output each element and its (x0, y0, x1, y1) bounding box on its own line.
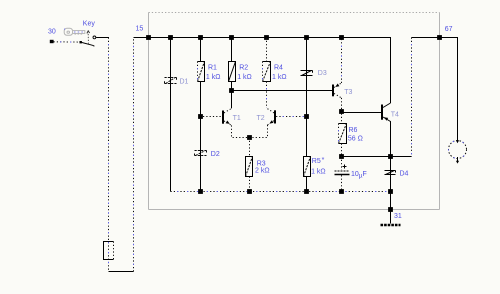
junction rail D2 (198, 189, 203, 194)
junction bus D1 (168, 35, 173, 40)
svg-text:1 kΩ: 1 kΩ (272, 74, 287, 81)
junction 67 / gray (437, 35, 442, 40)
zener D4 (385, 170, 409, 177)
junction R2/T1/T3 (229, 88, 234, 93)
module outline (gray box) (149, 13, 440, 210)
svg-text:R2: R2 (239, 65, 248, 72)
junction T3 collector / T4 base (339, 109, 344, 114)
resistor R6 (339, 124, 363, 144)
svg-text:31: 31 (394, 213, 402, 220)
svg-text:T2: T2 (257, 115, 265, 122)
svg-text:30: 30 (48, 29, 56, 36)
svg-text:D4: D4 (400, 170, 409, 177)
transistor T2 (257, 108, 305, 125)
svg-text:2 kΩ: 2 kΩ (255, 168, 270, 175)
wire: R6 branch (dashed) (341, 114, 343, 157)
wire: R4 bottom to T2 collector (dashed) (266, 82, 268, 109)
svg-text:15: 15 (136, 26, 144, 33)
svg-text:1 kΩ: 1 kΩ (206, 74, 221, 81)
ground (381, 224, 401, 227)
resistor R3 (246, 157, 270, 177)
svg-text:D3: D3 (318, 70, 327, 77)
junction bus T3 (339, 35, 344, 40)
junction rail C1 (339, 189, 344, 194)
junction node line / D4 (388, 154, 393, 159)
wire: T1 emitter down (dashed) (232, 125, 250, 137)
transistor T3 (333, 38, 352, 113)
svg-text:Key: Key (83, 21, 96, 28)
wire: R1 branch top (200, 38, 202, 62)
zener D1 (165, 78, 189, 86)
wire: junction to T3 base (solid) (232, 90, 333, 92)
resistor R2 (229, 62, 252, 82)
capacitor C1 10uF (335, 157, 367, 192)
zener D3 (301, 70, 327, 77)
svg-text:R4: R4 (274, 65, 283, 72)
key icon (64, 21, 95, 36)
svg-text:56 Ω: 56 Ω (348, 136, 363, 143)
wire: T4 emitter to ground run (390, 157, 392, 224)
wire: main top bus (134, 38, 391, 104)
wire: right riser to bus (dashed) (133, 38, 135, 272)
resistor R5 (304, 157, 326, 177)
switch fixed contact (93, 36, 96, 39)
svg-text:T3: T3 (344, 89, 352, 96)
svg-text:1 kΩ: 1 kΩ (237, 74, 252, 81)
wire: T3 to T4 base (344, 112, 382, 114)
junction T2 base tap (304, 114, 309, 119)
wire: bottom link (solid) (109, 271, 134, 273)
resistor R1 (198, 62, 221, 82)
switch S1 (key operated) (80, 31, 96, 46)
ground rail (dashed) (171, 191, 391, 193)
junction rail D4 (388, 189, 393, 194)
junction emitters / R3 (247, 135, 252, 140)
wire: node line (342, 156, 412, 158)
svg-text:D2: D2 (211, 151, 220, 158)
wire: to R3 (dashed) (249, 138, 251, 192)
junction bus R4 (264, 35, 269, 40)
resistor R4 (263, 62, 287, 82)
junction gray box bottom (388, 207, 393, 212)
svg-text:R6: R6 (349, 127, 358, 134)
svg-text:T1: T1 (233, 115, 241, 122)
junction bus R2 (229, 35, 234, 40)
zener D2 (195, 151, 220, 158)
svg-text:R1: R1 (208, 65, 217, 72)
terminal 30 (48, 29, 56, 44)
wire: R1 to D2 to rail (200, 82, 202, 192)
wire: terminal 30 to switch pivot (dashed) (54, 41, 81, 43)
junction bus R1 (198, 35, 203, 40)
wire: T2 emitter down (dashed) (250, 125, 268, 138)
load current source B1 (449, 140, 467, 163)
junction T1 base tap (198, 114, 203, 119)
wire: R2 branch top (231, 38, 233, 62)
junction rail R5 (304, 189, 309, 194)
junction bus-gray (146, 35, 151, 40)
wire: R5 bottom stub (306, 177, 308, 192)
svg-text:R5: R5 (312, 158, 321, 165)
svg-text:D1: D1 (180, 79, 189, 86)
junction bus D3 (304, 35, 309, 40)
wire: R2 bottom to junction (231, 82, 233, 91)
junction node line / cap (339, 154, 344, 159)
fuse box F1 (bottom left) (104, 242, 114, 260)
wire: left drop from switch (dashed) (108, 38, 110, 272)
svg-text:*: * (322, 157, 325, 164)
svg-text:67: 67 (445, 26, 453, 33)
wire: switch to drop node (solid) (96, 37, 109, 39)
transistor T4 (382, 103, 399, 157)
wire: R4 branch top (dashed) (266, 38, 268, 62)
svg-text:T4: T4 (391, 111, 399, 118)
svg-text:1 kΩ: 1 kΩ (311, 169, 326, 176)
wire: node 67 line (412, 38, 458, 141)
wire: D3 branch (solid) (306, 38, 308, 157)
wire: 67 drop to node line (dashed) (411, 38, 413, 157)
wire: D1 branch (170, 38, 172, 192)
junction rail R3 (247, 189, 252, 194)
transistor T1 (203, 91, 241, 126)
